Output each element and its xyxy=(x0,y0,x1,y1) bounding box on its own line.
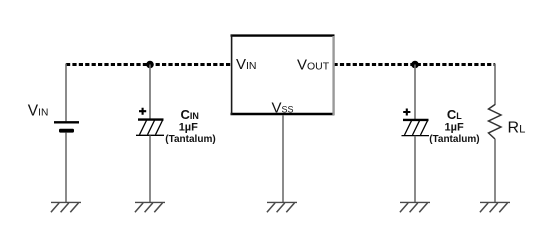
wire: RL top lead xyxy=(494,64,496,106)
label (Tantalum) (CIN) xyxy=(165,134,215,145)
label 1uF (CIN) xyxy=(179,122,198,134)
svg-text:(Tantalum): (Tantalum) xyxy=(165,134,215,145)
svg-text:1µF: 1µF xyxy=(179,122,198,134)
wire: RL bottom lead xyxy=(494,139,496,202)
node: junction dot at CL xyxy=(411,61,419,69)
pin label VSS (inside box) xyxy=(272,100,294,117)
wire: VSS lead xyxy=(282,115,284,202)
capacitor CL (polarized, hatched symbol) xyxy=(402,109,430,136)
capacitor CIN (polarized, hatched symbol) xyxy=(136,108,164,136)
wire: CL bottom lead xyxy=(414,136,416,203)
svg-text:CL: CL xyxy=(447,107,462,122)
label (Tantalum) (CL) xyxy=(429,134,479,145)
resistor RL (zigzag) xyxy=(489,105,502,140)
svg-text:(Tantalum): (Tantalum) xyxy=(429,134,479,145)
ground: CIN ground xyxy=(135,202,165,212)
wire: CIN top lead xyxy=(149,65,151,120)
ground: VSS ground xyxy=(267,202,297,212)
ground: CL ground xyxy=(400,202,430,212)
wire: top bus right segment (VOUT node, dashed) xyxy=(334,63,496,66)
label RL xyxy=(508,120,526,137)
svg-text:VIN: VIN xyxy=(28,103,49,120)
label 1uF (CL) xyxy=(445,122,464,134)
wire: CIN bottom lead xyxy=(149,136,151,203)
svg-text:CIN: CIN xyxy=(181,107,199,122)
wire: battery positive lead xyxy=(65,64,67,122)
svg-text:RL: RL xyxy=(508,120,526,137)
pin label VIN (inside box) xyxy=(236,56,257,73)
ground: battery ground xyxy=(51,202,81,212)
wire: battery negative lead xyxy=(65,133,67,203)
label CL xyxy=(447,107,462,122)
label VIN (source) xyxy=(28,103,49,120)
svg-text:1µF: 1µF xyxy=(445,122,464,134)
wire: CL top lead xyxy=(414,65,416,120)
op-amp U1: regulator IC box xyxy=(231,35,335,115)
pin label VOUT (inside box) xyxy=(297,57,330,74)
wire: top bus left segment (VIN node, dashed) xyxy=(66,63,232,66)
battery V1 (VIN source) xyxy=(54,122,79,132)
node: junction dot at CIN xyxy=(146,61,154,69)
label CIN xyxy=(181,107,199,122)
ground: RL ground xyxy=(480,202,510,212)
